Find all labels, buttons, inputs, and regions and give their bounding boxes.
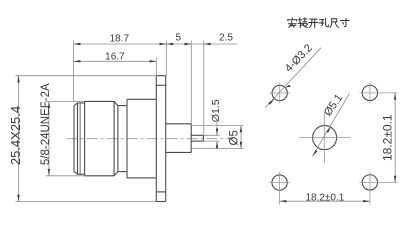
svg-text:2.5: 2.5 <box>219 33 233 44</box>
开 <box>309 19 318 27</box>
groove top <box>118 105 127 107</box>
dimension 25.4X25.4 <box>8 76 156 202</box>
dimension 18.7 <box>74 34 167 102</box>
corner hole BL <box>269 172 290 204</box>
groove bottom <box>118 171 127 173</box>
front chamfer top <box>74 103 78 106</box>
front ring bottom <box>78 173 85 175</box>
nut front face <box>73 106 75 172</box>
thread top <box>85 100 115 102</box>
svg-text:16.7: 16.7 <box>105 52 125 63</box>
pin top <box>191 134 203 136</box>
dimension O1.5 pin <box>203 99 222 150</box>
dimension 5 <box>166 33 191 124</box>
svg-text:18.2±0.1: 18.2±0.1 <box>305 193 344 204</box>
groove edge vertical <box>117 106 119 172</box>
寸 <box>340 18 349 26</box>
barrel top <box>127 98 156 100</box>
thread end chamfer bottom <box>114 172 118 176</box>
flange top <box>156 75 165 77</box>
dimension 18.2+-0.1 bottom <box>280 193 370 204</box>
insulator end vertical <box>190 124 192 153</box>
title 安装开孔尺寸 drawn as strokes <box>288 18 349 28</box>
svg-text:5: 5 <box>176 33 182 44</box>
barrel bottom <box>127 177 156 179</box>
corner hole TL <box>269 83 290 104</box>
thread start vertical <box>79 103 81 174</box>
corner hole TR <box>359 82 397 103</box>
thread end chamfer top <box>114 101 118 105</box>
dimension 16.7 <box>74 52 157 76</box>
corner hole BR <box>359 172 397 205</box>
svg-text:25.4X25.4: 25.4X25.4 <box>8 106 23 165</box>
chamfer edge vertical <box>77 103 79 174</box>
dimension O5 insulator <box>191 126 243 149</box>
flange corner edge top <box>156 84 165 86</box>
pin bottom <box>191 140 203 142</box>
leader 4-O3.2 <box>265 42 321 108</box>
尺 <box>330 19 338 28</box>
thread bottom <box>85 175 115 177</box>
insulator top <box>166 123 192 125</box>
dimension 5/8-24UNEF-2A thread <box>40 83 85 176</box>
安 <box>288 18 297 28</box>
flange back face <box>165 76 167 202</box>
svg-text:5/8-24UNEF-2A: 5/8-24UNEF-2A <box>40 83 52 165</box>
center hole O5.1 <box>299 113 351 163</box>
flange corner edge bottom <box>156 191 165 193</box>
dimension 18.2+-0.1 right <box>380 93 396 183</box>
leader O5.1 <box>312 92 349 157</box>
孔 <box>319 18 328 26</box>
thread end vertical <box>113 101 115 175</box>
connector body outline <box>74 76 203 202</box>
svg-text:18.7: 18.7 <box>110 34 130 45</box>
pin end vertical <box>202 135 204 141</box>
centerline <box>67 138 234 140</box>
flange front face <box>155 76 157 202</box>
insulator bottom <box>166 151 192 153</box>
装 <box>298 18 307 28</box>
barrel front vertical <box>126 99 128 178</box>
svg-text:Ø1.5: Ø1.5 <box>210 99 222 122</box>
svg-text:18.2±0.1: 18.2±0.1 <box>380 114 394 161</box>
svg-text:Ø5: Ø5 <box>228 130 240 145</box>
front chamfer bottom <box>74 172 78 175</box>
flange bottom <box>156 201 165 203</box>
front ring top <box>78 102 85 104</box>
thread step vertical <box>84 101 86 175</box>
dimension 2.5 <box>191 33 237 136</box>
